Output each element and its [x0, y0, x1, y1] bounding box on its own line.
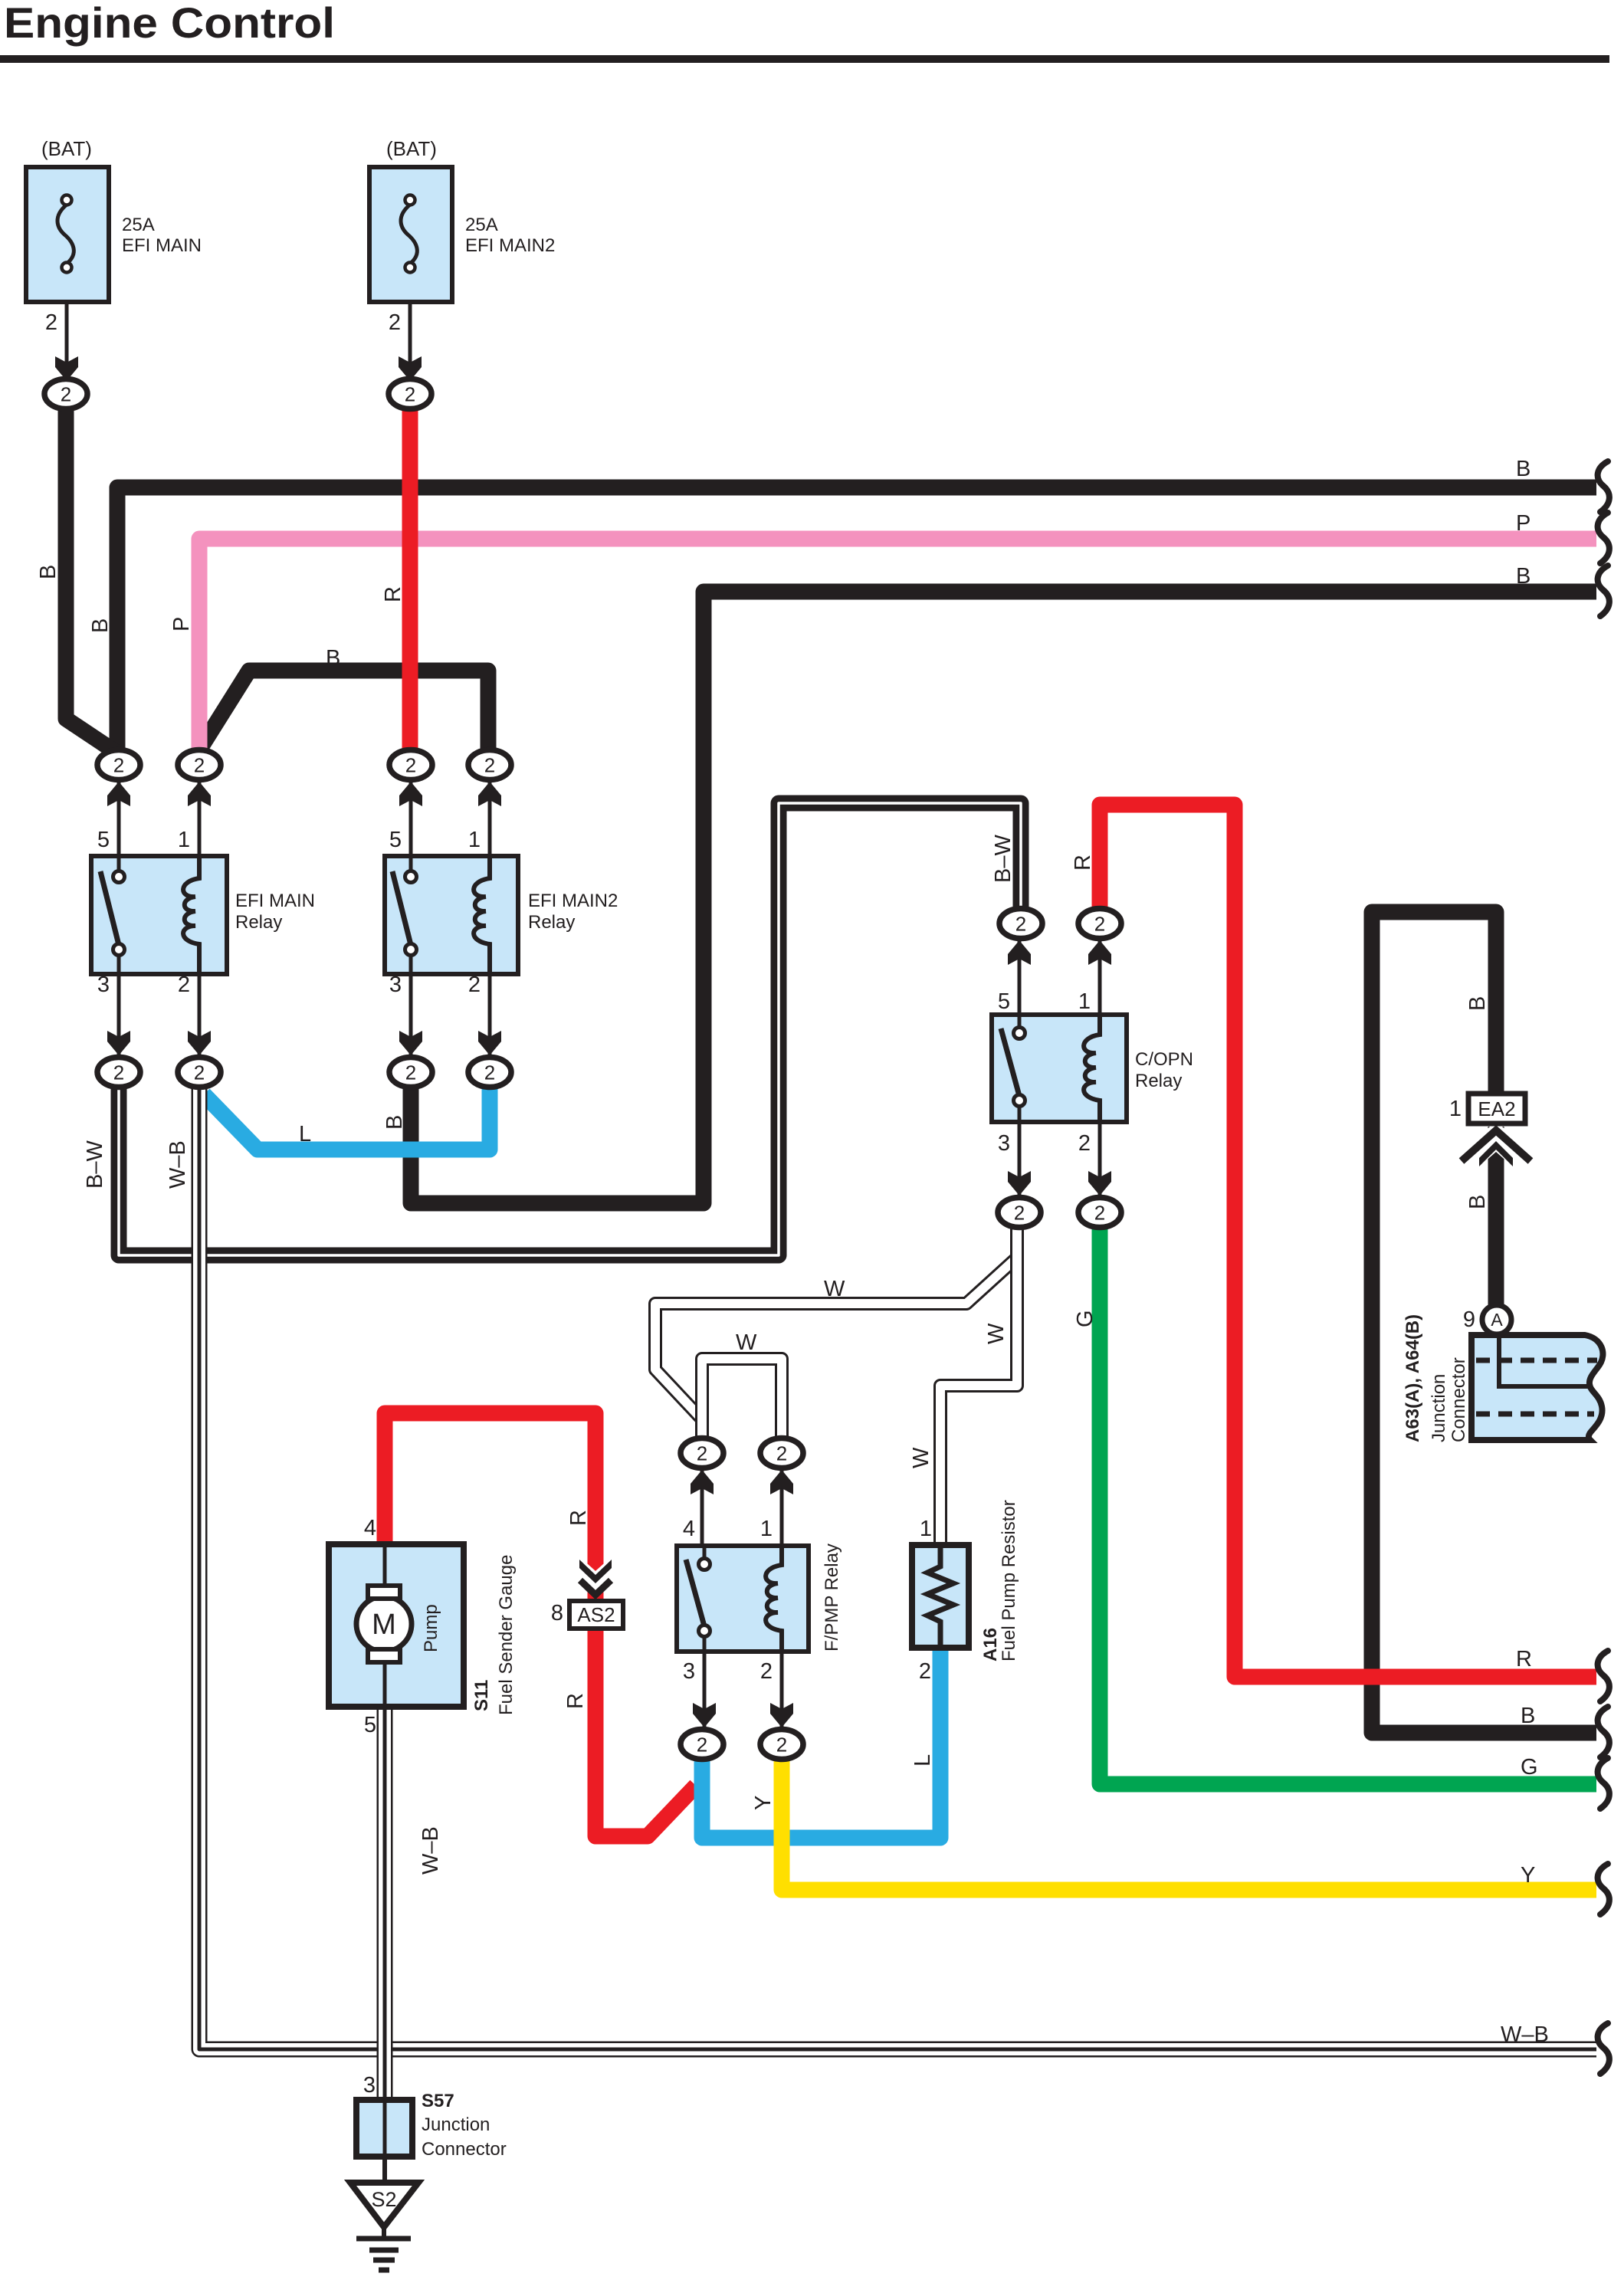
svg-text:S2: S2 — [371, 2188, 396, 2211]
oval 2 at F/PMP relay pin2 — [760, 1730, 803, 1760]
wire relay EFI MAIN2 pin1 — [488, 779, 492, 856]
wire B EA2 to junction connector A — [1488, 1127, 1504, 1312]
arrow into fuse2 oval — [399, 356, 422, 381]
svg-text:S11: S11 — [471, 1680, 492, 1711]
svg-text:R: R — [381, 586, 405, 602]
oval 2 at F/PMP relay pin1 — [760, 1438, 803, 1468]
arrow down oval r1p2 — [188, 1031, 211, 1055]
wire fuse2 to oval — [408, 302, 412, 380]
svg-text:4: 4 — [364, 1516, 376, 1540]
svg-text:2: 2 — [484, 754, 495, 777]
fuse 25A EFI MAIN — [26, 167, 109, 359]
oval 2 at EFI MAIN relay pin5 — [97, 750, 140, 780]
arrow down oval r2p2 — [478, 1031, 501, 1055]
svg-text:1: 1 — [920, 1517, 932, 1541]
svg-text:B: B — [382, 1115, 407, 1130]
junction connector S57 — [356, 2100, 412, 2184]
svg-text:1: 1 — [468, 828, 481, 852]
wire B short horizontal between relays — [200, 671, 488, 757]
wire relay EFI MAIN pin3 — [117, 974, 121, 1059]
svg-text:EFI MAIN: EFI MAIN — [122, 235, 202, 256]
svg-text:1: 1 — [760, 1517, 773, 1541]
arrow up oval copn5 — [1008, 940, 1031, 965]
wire relay EFI MAIN pin5 — [117, 779, 121, 856]
wire B from EFI MAIN2 relay pin3 to right edge — [411, 592, 1596, 1203]
wire R red from C/OPN relay to right edge — [1100, 805, 1596, 1677]
svg-text:9: 9 — [1463, 1307, 1475, 1332]
svg-text:2: 2 — [1015, 913, 1026, 936]
wire L blue fuel pump resistor to F/PMP relay — [702, 1646, 940, 1838]
svg-text:Relay: Relay — [235, 912, 282, 933]
svg-text:3: 3 — [998, 1131, 1010, 1156]
svg-text:A63(A), A64(B): A63(A), A64(B) — [1403, 1314, 1423, 1442]
wire relay F/PMP pin2 — [780, 1652, 784, 1730]
arrow down oval copn3 — [1008, 1171, 1031, 1196]
wire relay EFI MAIN2 pin3 — [409, 974, 413, 1059]
oval 2 at C/OPN relay pin2 — [1078, 1198, 1121, 1228]
svg-text:5: 5 — [364, 1713, 376, 1737]
svg-text:EFI MAIN2: EFI MAIN2 — [528, 891, 618, 911]
wire R red from fuse EFI MAIN2 — [402, 402, 418, 757]
svg-text:B: B — [36, 565, 61, 579]
svg-text:B: B — [1521, 1704, 1535, 1728]
wire P pink horizontal to right edge — [199, 539, 1596, 757]
svg-text:2: 2 — [113, 1061, 124, 1084]
svg-text:(BAT): (BAT) — [386, 137, 437, 160]
node A circle — [1482, 1305, 1511, 1334]
svg-text:1: 1 — [178, 828, 190, 852]
svg-text:W: W — [736, 1330, 757, 1355]
svg-text:B: B — [1516, 564, 1530, 589]
wire L blue EFI MAIN2 coil — [204, 1081, 490, 1150]
wire relay F/PMP pin4 — [700, 1467, 704, 1546]
arrows — [55, 356, 1111, 1727]
oval 2 at C/OPN relay pin5 — [999, 909, 1042, 939]
oval 2 at EFI MAIN2 relay pin5 — [389, 750, 432, 780]
wire R red from fuel sender gauge through AS2 — [385, 1413, 696, 1836]
svg-text:R: R — [1516, 1647, 1532, 1671]
svg-text:P: P — [169, 617, 194, 631]
wire W between F/PMP relay pins 4 and 1 — [702, 1359, 782, 1445]
svg-text:2: 2 — [194, 754, 205, 777]
junction connector A63/A64 — [1471, 1335, 1603, 1440]
svg-text:Connector: Connector — [1448, 1357, 1469, 1442]
svg-text:1: 1 — [1449, 1097, 1462, 1121]
wire B-W from EFI MAIN relay pin3 to C/OPN relay pin5 — [119, 803, 1021, 1255]
connector tag EA2 — [1457, 1094, 1535, 1171]
ground S2 — [350, 2183, 418, 2270]
oval 2 at EFI MAIN2 relay pin1 — [468, 750, 511, 780]
arrow up oval r1p1 — [188, 782, 211, 806]
svg-text:5: 5 — [97, 828, 110, 852]
relay EFI MAIN — [91, 856, 227, 974]
arrow up oval fpmp4 — [691, 1470, 714, 1494]
arrow down oval r2p3 — [399, 1031, 422, 1055]
svg-text:25A: 25A — [122, 215, 155, 235]
relay C/OPN — [992, 1015, 1127, 1122]
oval 2 at F/PMP relay pin4 — [681, 1438, 723, 1468]
svg-text:B–W: B–W — [991, 835, 1015, 883]
svg-text:R: R — [563, 1693, 588, 1709]
svg-text:R: R — [566, 1510, 591, 1526]
oval 2 at EFI MAIN2 relay pin2 — [468, 1058, 511, 1087]
svg-text:3: 3 — [389, 973, 402, 997]
wire relay C/OPN pin2 — [1098, 1122, 1102, 1199]
arrow down oval copn2 — [1088, 1171, 1111, 1196]
svg-text:AS2: AS2 — [577, 1603, 615, 1626]
wire P vertical into relay oval — [192, 546, 208, 757]
svg-text:2: 2 — [919, 1659, 931, 1684]
svg-text:L: L — [299, 1122, 311, 1146]
svg-text:B: B — [326, 646, 340, 671]
fuel sender gauge S11 with pump motor — [329, 1544, 464, 1707]
oval 2 at F/PMP relay pin3 — [681, 1730, 723, 1760]
wire relay C/OPN pin5 — [1018, 938, 1022, 1015]
wire relay F/PMP pin3 — [703, 1652, 707, 1730]
connector ovals "2" — [44, 379, 1121, 1760]
svg-text:B: B — [88, 618, 113, 633]
svg-text:2: 2 — [697, 1442, 707, 1465]
connector AS2 — [569, 1560, 623, 1629]
svg-text:2: 2 — [697, 1734, 707, 1757]
svg-text:L: L — [910, 1754, 935, 1766]
svg-text:F/PMP Relay: F/PMP Relay — [822, 1543, 842, 1652]
svg-text:Connector: Connector — [422, 2139, 507, 2160]
arrow up oval fpmp1 — [770, 1470, 793, 1494]
arrow up oval copn1 — [1088, 940, 1111, 965]
wire W-B from EFI MAIN relay pin2 to right edge — [199, 1081, 1596, 2049]
svg-text:Pump: Pump — [421, 1604, 441, 1652]
wire break squiggles right edge — [1598, 461, 1609, 2074]
svg-text:2: 2 — [1078, 1131, 1091, 1156]
arrow up oval r1p5 — [107, 782, 130, 806]
wire W from C/OPN relay pin3 to F/PMP relay pin4 — [655, 1223, 1017, 1445]
arrow into fuse1 oval — [55, 356, 78, 381]
svg-text:2: 2 — [484, 1061, 495, 1084]
svg-text:Junction: Junction — [422, 2114, 490, 2135]
svg-text:W: W — [824, 1277, 845, 1301]
pin wires thin — [67, 302, 1100, 1730]
svg-text:(BAT): (BAT) — [41, 137, 92, 160]
svg-text:G: G — [1521, 1755, 1538, 1780]
oval 2 below fuse EFI MAIN2 — [389, 379, 431, 409]
svg-text:2: 2 — [389, 310, 401, 335]
wire B from fuse EFI MAIN — [66, 402, 116, 753]
wire W-B from fuel sender gauge pin5 to S57 — [377, 1703, 393, 2104]
wire relay EFI MAIN pin1 — [198, 779, 202, 856]
wire W from C/OPN relay pin3 to fuel pump resistor — [940, 1223, 1017, 1548]
svg-text:2: 2 — [760, 1659, 773, 1684]
wire B top horizontal to right edge — [117, 487, 1596, 757]
svg-text:2: 2 — [405, 754, 416, 777]
svg-text:EA2: EA2 — [1478, 1097, 1515, 1120]
oval 2 below fuse EFI MAIN — [44, 379, 87, 409]
svg-text:W–B: W–B — [418, 1826, 443, 1875]
svg-text:B: B — [1465, 1195, 1490, 1209]
svg-text:2: 2 — [1014, 1202, 1025, 1225]
wire G green from C/OPN relay to right edge — [1100, 1220, 1596, 1784]
svg-text:5: 5 — [389, 828, 402, 852]
svg-text:2: 2 — [194, 1061, 205, 1084]
WIRES-EARLY — [66, 402, 1596, 2104]
svg-text:2: 2 — [178, 973, 190, 997]
svg-text:3: 3 — [683, 1659, 695, 1684]
svg-text:3: 3 — [97, 973, 110, 997]
wire relay C/OPN pin1 — [1098, 938, 1102, 1015]
svg-text:W: W — [909, 1447, 933, 1468]
arrow up oval r2p1 — [478, 782, 501, 806]
svg-text:4: 4 — [683, 1517, 695, 1541]
wire relay EFI MAIN2 pin5 — [409, 779, 413, 856]
svg-text:S57: S57 — [422, 2091, 454, 2111]
svg-text:B–W: B–W — [83, 1140, 107, 1189]
svg-text:Engine Control: Engine Control — [4, 0, 335, 47]
svg-text:R: R — [1071, 855, 1095, 871]
svg-text:B: B — [1516, 457, 1530, 481]
fuse 25A EFI MAIN2 — [369, 167, 452, 359]
wire relay EFI MAIN pin2 — [198, 974, 202, 1059]
svg-text:W–B: W–B — [166, 1140, 190, 1189]
arrow up oval r2p5 — [399, 782, 422, 806]
oval 2 at EFI MAIN relay pin1 — [178, 750, 221, 780]
svg-text:P: P — [1516, 511, 1530, 536]
svg-text:C/OPN: C/OPN — [1135, 1049, 1193, 1070]
svg-text:W–B: W–B — [1501, 2022, 1549, 2047]
wire relay EFI MAIN2 pin2 — [488, 974, 492, 1059]
svg-text:A16: A16 — [980, 1628, 1001, 1662]
svg-text:G: G — [1073, 1310, 1097, 1327]
svg-text:2: 2 — [61, 383, 71, 406]
svg-text:2: 2 — [776, 1442, 787, 1465]
wire Y yellow from F/PMP relay to right edge — [782, 1753, 1596, 1890]
svg-text:8: 8 — [551, 1601, 563, 1625]
svg-text:B: B — [1465, 996, 1490, 1011]
svg-text:2: 2 — [405, 1061, 416, 1084]
svg-text:Fuel Pump Resistor: Fuel Pump Resistor — [999, 1500, 1019, 1662]
wire B loop EA2 junction — [1372, 912, 1596, 1733]
oval 2 at C/OPN relay pin3 — [998, 1198, 1041, 1228]
relay F/PMP — [677, 1546, 809, 1652]
arrow down oval fpmp2 — [770, 1703, 793, 1727]
svg-text:Relay: Relay — [1135, 1071, 1182, 1091]
svg-text:25A: 25A — [465, 215, 498, 235]
oval 2 at C/OPN relay pin1 — [1078, 909, 1121, 939]
relay EFI MAIN2 — [385, 856, 518, 974]
arrow down oval fpmp3 — [693, 1703, 716, 1727]
svg-text:W: W — [984, 1323, 1009, 1344]
svg-text:EFI MAIN: EFI MAIN — [235, 891, 315, 911]
arrow down oval r1p3 — [107, 1031, 130, 1055]
svg-text:2: 2 — [45, 310, 57, 335]
svg-text:2: 2 — [1094, 1202, 1105, 1225]
svg-text:M: M — [372, 1609, 396, 1641]
svg-text:2: 2 — [405, 383, 415, 406]
svg-text:Y: Y — [1521, 1863, 1535, 1888]
svg-text:2: 2 — [113, 754, 124, 777]
svg-text:2: 2 — [1094, 913, 1105, 936]
wire fuse1 to oval — [65, 302, 69, 380]
oval 2 at EFI MAIN relay pin2 — [178, 1058, 221, 1087]
wire relay C/OPN pin3 — [1018, 1122, 1022, 1199]
svg-text:A: A — [1491, 1310, 1503, 1330]
fuel pump resistor A16 — [912, 1545, 969, 1648]
svg-text:2: 2 — [468, 973, 481, 997]
svg-text:Relay: Relay — [528, 912, 575, 933]
svg-text:1: 1 — [1078, 989, 1091, 1014]
oval 2 at EFI MAIN2 relay pin3 — [389, 1058, 432, 1087]
svg-text:2: 2 — [776, 1734, 787, 1757]
oval 2 at EFI MAIN relay pin3 — [97, 1058, 140, 1087]
svg-text:Y: Y — [751, 1796, 776, 1810]
svg-text:3: 3 — [363, 2073, 376, 2098]
svg-text:5: 5 — [998, 989, 1010, 1014]
svg-text:EFI MAIN2: EFI MAIN2 — [465, 235, 555, 256]
wire relay F/PMP pin1 — [780, 1467, 784, 1546]
svg-text:Junction: Junction — [1429, 1374, 1449, 1442]
svg-text:Fuel Sender Gauge: Fuel Sender Gauge — [496, 1555, 517, 1715]
